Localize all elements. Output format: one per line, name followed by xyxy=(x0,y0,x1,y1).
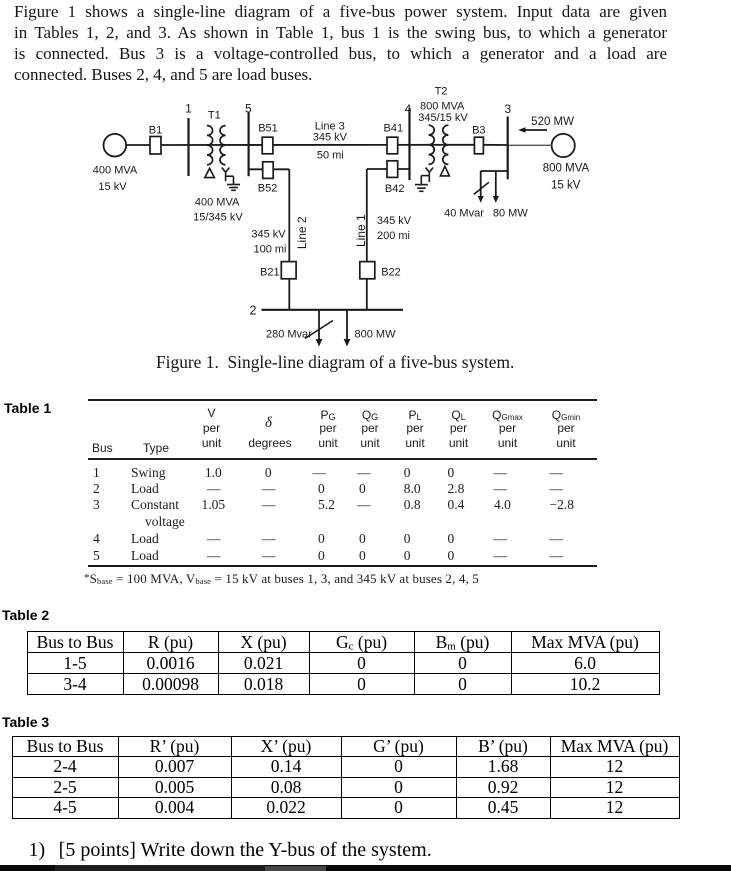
svg-text:B1: B1 xyxy=(149,124,162,136)
svg-text:800 MVA: 800 MVA xyxy=(420,101,465,113)
svg-text:2: 2 xyxy=(250,304,257,318)
svg-text:50 mi: 50 mi xyxy=(317,150,344,162)
svg-text:345 kV: 345 kV xyxy=(251,229,286,241)
svg-text:Line 2: Line 2 xyxy=(295,216,309,249)
svg-text:40 Mvar: 40 Mvar xyxy=(444,208,484,220)
svg-text:5: 5 xyxy=(245,102,252,116)
svg-text:B3: B3 xyxy=(472,125,485,137)
svg-text:4: 4 xyxy=(405,102,412,116)
svg-text:B51: B51 xyxy=(258,123,278,135)
svg-text:3: 3 xyxy=(504,102,511,116)
svg-text:B52: B52 xyxy=(258,183,278,195)
svg-text:520 MW: 520 MW xyxy=(531,116,574,128)
svg-text:1: 1 xyxy=(185,102,192,116)
svg-text:15 kV: 15 kV xyxy=(551,179,581,191)
svg-text:800 MVA: 800 MVA xyxy=(543,162,590,174)
svg-text:280 Mvar: 280 Mvar xyxy=(266,329,312,341)
svg-text:345 kV: 345 kV xyxy=(313,132,348,144)
svg-text:T1: T1 xyxy=(208,110,221,122)
svg-text:400 MVA: 400 MVA xyxy=(195,197,240,209)
svg-text:400 MVA: 400 MVA xyxy=(93,165,138,177)
svg-text:800 MW: 800 MW xyxy=(355,329,397,341)
svg-text:200 mi: 200 mi xyxy=(377,230,410,242)
svg-text:Line 1: Line 1 xyxy=(354,214,368,247)
svg-text:B21: B21 xyxy=(260,267,280,279)
svg-text:B41: B41 xyxy=(384,123,404,135)
svg-text:B42: B42 xyxy=(385,183,405,195)
svg-text:345 kV: 345 kV xyxy=(377,215,412,227)
svg-text:100 mi: 100 mi xyxy=(253,244,286,256)
svg-text:T2: T2 xyxy=(435,86,448,98)
svg-text:15 kV: 15 kV xyxy=(98,181,127,193)
svg-text:345/15 kV: 345/15 kV xyxy=(418,112,468,124)
svg-text:15/345 kV: 15/345 kV xyxy=(193,212,243,224)
svg-text:80 MW: 80 MW xyxy=(493,208,528,220)
svg-text:B22: B22 xyxy=(381,267,401,279)
